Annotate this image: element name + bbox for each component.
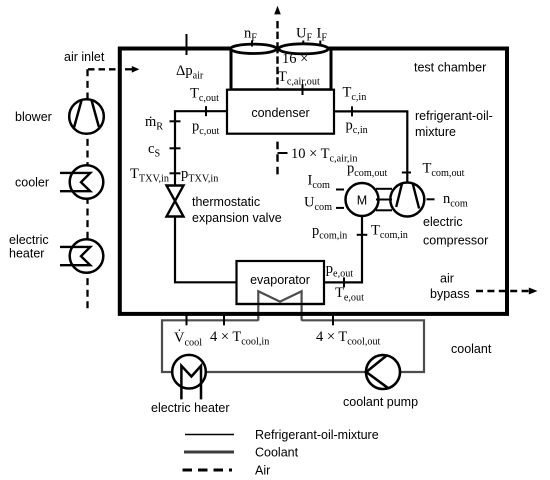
- blower B1: [15, 99, 104, 134]
- svg-text:thermostatic: thermostatic: [192, 195, 260, 209]
- svg-text:expansion valve: expansion valve: [192, 211, 282, 225]
- coupling lines motor-compressor: [376, 189, 392, 211]
- svg-text:cS: cS: [148, 141, 160, 160]
- electric heater H2 (coolant): [151, 355, 230, 415]
- svg-text:4 × Tcool,in: 4 × Tcool,in: [210, 329, 269, 348]
- svg-text:M: M: [357, 194, 367, 208]
- tick and label 4x T_cool,out: [316, 315, 381, 347]
- compressor CP1 circle: [390, 183, 424, 217]
- svg-text:V̇cool: V̇cool: [174, 329, 202, 348]
- wire condenser-in from compressor: [334, 111, 407, 182]
- svg-text:Icom: Icom: [308, 173, 330, 192]
- test chamber boundary: [120, 49, 507, 314]
- svg-text:air: air: [440, 272, 454, 286]
- svg-text:Te,out: Te,out: [335, 285, 364, 304]
- legend air line: [183, 464, 271, 478]
- svg-text:air inlet: air inlet: [64, 50, 105, 64]
- label n_com with leader dash: [427, 191, 468, 210]
- tick and labels T_c,in p_c,in: [343, 85, 368, 137]
- label T_c,air,out with tick: [278, 69, 320, 95]
- svg-text:bypass: bypass: [430, 287, 470, 301]
- tick and labels T_TXV,in p_TXV,in: [130, 166, 218, 185]
- tick and label V_cool: [174, 315, 202, 348]
- svg-text:UF: UF: [296, 26, 312, 44]
- svg-text:electric: electric: [9, 233, 49, 247]
- coolant pipe through evaporator: [237, 291, 325, 320]
- condenser C1 box: [227, 90, 334, 134]
- tick and labels T_c,out p_c,out: [190, 86, 220, 138]
- tick and label 4x T_cool,in: [210, 315, 269, 347]
- svg-text:Tcom,in: Tcom,in: [371, 223, 408, 242]
- svg-text:test chamber: test chamber: [414, 61, 486, 75]
- evaporator E1 box: [237, 261, 325, 304]
- svg-text:pc,in: pc,in: [346, 118, 368, 137]
- svg-text:pcom,in: pcom,in: [312, 223, 347, 242]
- svg-text:electric: electric: [423, 215, 463, 229]
- air inlet dashed wire: [88, 66, 139, 73]
- tick I_F: [317, 26, 328, 45]
- svg-text:Tc,out: Tc,out: [190, 86, 219, 105]
- compressor internal vanes: [396, 184, 419, 209]
- svg-text:pTXV,in: pTXV,in: [181, 166, 218, 185]
- coolant wire heater to pump: [206, 371, 367, 373]
- fan F2 ellipse: [279, 44, 329, 54]
- svg-text:16 ×: 16 ×: [282, 51, 308, 67]
- thermostatic expansion valve V1: [167, 186, 282, 226]
- svg-text:ṁR: ṁR: [145, 114, 163, 133]
- tick and labels p_com,out T_com,out: [347, 160, 465, 179]
- legend coolant line: [184, 446, 299, 460]
- svg-text:coolant: coolant: [451, 342, 492, 356]
- svg-text:Refrigerant-oil-mixture: Refrigerant-oil-mixture: [255, 428, 379, 442]
- svg-text:4 × Tcool,out: 4 × Tcool,out: [316, 329, 381, 348]
- svg-text:electric heater: electric heater: [151, 401, 230, 415]
- svg-text:Coolant: Coolant: [255, 446, 299, 460]
- svg-text:ncom: ncom: [443, 191, 468, 210]
- svg-text:Air: Air: [255, 464, 270, 478]
- air bypass dashed arrow: [430, 272, 538, 302]
- svg-text:mixture: mixture: [415, 125, 456, 139]
- svg-text:condenser: condenser: [251, 106, 309, 120]
- tick and label c_S: [148, 141, 181, 160]
- svg-text:Ucom: Ucom: [304, 195, 332, 214]
- wire TXV to evaporator-in: [175, 217, 237, 283]
- svg-text:blower: blower: [15, 110, 52, 124]
- svg-text:pe,out: pe,out: [326, 261, 354, 280]
- svg-text:coolant pump: coolant pump: [343, 395, 418, 409]
- air dashed line left column: [86, 69, 88, 312]
- air flow dashed line through condenser: [274, 6, 281, 175]
- motor M1 circle: [346, 183, 379, 216]
- svg-text:evaporator: evaporator: [250, 273, 310, 287]
- svg-text:TTXV,in: TTXV,in: [130, 166, 169, 185]
- svg-text:Tc,in: Tc,in: [343, 85, 367, 104]
- label 10x T_c,air,in with tick: [278, 146, 358, 165]
- tick and label m_R: [145, 114, 181, 133]
- label coolant: [451, 342, 492, 356]
- svg-text:Tcom,out: Tcom,out: [423, 160, 465, 179]
- svg-text:cooler: cooler: [15, 176, 49, 190]
- svg-text:pc,out: pc,out: [192, 119, 220, 138]
- coolant wire evaporator-out to heater: [162, 320, 258, 372]
- svg-text:refrigerant-oil-: refrigerant-oil-: [415, 109, 493, 123]
- svg-text:IF: IF: [317, 26, 328, 44]
- fan housing box: [231, 50, 331, 90]
- wire condenser-out to TXV: [175, 111, 227, 185]
- motor M label: [357, 194, 367, 208]
- cooler HX1: [15, 165, 103, 199]
- svg-text:nF: nF: [244, 26, 257, 44]
- fan F1 ellipse: [231, 44, 277, 53]
- svg-text:Δpair: Δpair: [176, 63, 204, 82]
- tick and labels p_com,in T_com,in: [312, 223, 408, 242]
- label electric compressor: [423, 215, 488, 248]
- tick and label dP_air: [176, 34, 204, 82]
- labels I_com U_com with leader dashes: [304, 173, 344, 213]
- tick U_F: [296, 26, 312, 45]
- svg-text:pcom,out: pcom,out: [347, 161, 388, 180]
- svg-text:Tc,air,out: Tc,air,out: [278, 69, 320, 88]
- label refrigerant-oil-mixture: [415, 109, 493, 139]
- legend refrigerant line: [185, 428, 379, 442]
- coolant wire pump to evaporator-in: [302, 320, 424, 372]
- label 16x fans: [282, 51, 308, 67]
- wire evaporator-out to compressor-in: [324, 216, 362, 282]
- svg-text:compressor: compressor: [423, 234, 488, 248]
- coolant pump P1: [343, 355, 418, 409]
- label air inlet: [64, 50, 105, 64]
- tick and labels p_e,out T_e,out: [326, 261, 364, 304]
- tick n_F: [244, 26, 257, 47]
- svg-text:heater: heater: [9, 247, 44, 261]
- electric heater HX2 (air): [9, 233, 103, 273]
